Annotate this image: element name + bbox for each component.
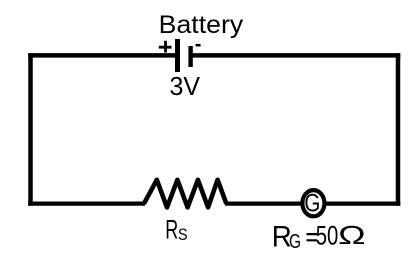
svg-text:3V: 3V (170, 71, 201, 101)
svg-text:50: 50 (316, 221, 339, 251)
wire: bottom segment between resistor and galvanometer (225, 201, 304, 205)
wire: left vertical side (28, 53, 33, 206)
wire: right vertical side (396, 53, 401, 206)
svg-text:G: G (289, 231, 301, 253)
battery minus sign (196, 44, 201, 47)
svg-text:G: G (304, 189, 320, 217)
galvanometer G body (circle) (302, 190, 324, 216)
svg-text:S: S (178, 225, 188, 244)
wire: bottom-left segment from left corner to resistor (28, 201, 145, 205)
battery B1 positive plate (long bar) (175, 39, 180, 72)
wire: top-right segment from battery - terminal to right corner (193, 53, 401, 58)
wire: top-left segment from left corner to battery + terminal (28, 53, 175, 58)
battery plus sign (159, 41, 172, 53)
battery B1 negative plate (short bar) (188, 46, 192, 67)
equals sign of RG value (307, 234, 318, 240)
wire: bottom-right segment from galvanometer to right corner (324, 201, 400, 205)
resistor RS zigzag (144, 180, 226, 208)
svg-text:Ω: Ω (338, 220, 366, 250)
svg-text:R: R (165, 214, 178, 244)
svg-text:Battery: Battery (159, 11, 244, 39)
